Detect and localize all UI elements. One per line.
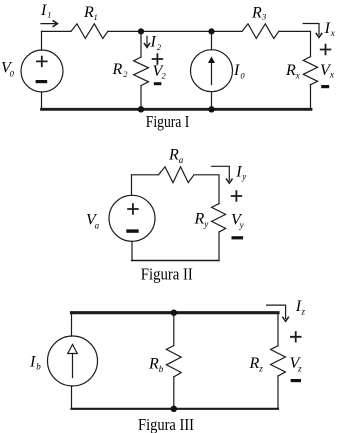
svg-text:I: I	[233, 62, 240, 79]
current I1 label and arrow	[40, 2, 58, 27]
wire left branch upper lead (Figura II)	[131, 175, 133, 196]
current Iz hook arrow and label	[267, 298, 306, 321]
resistor Ra	[159, 147, 195, 183]
node junction top of I0	[208, 28, 214, 34]
wire Rb lower lead	[173, 377, 175, 409]
resistor Rb	[148, 346, 181, 377]
wire left branch lower lead (Figura II)	[131, 241, 133, 260]
svg-text:z: z	[297, 363, 302, 373]
svg-text:x: x	[330, 28, 335, 38]
svg-text:2: 2	[157, 42, 162, 52]
wire left branch upper lead (Figura III)	[71, 313, 73, 337]
node junction top of Rb	[171, 310, 177, 316]
resistor Rz	[249, 346, 286, 376]
svg-text:I: I	[150, 34, 157, 51]
svg-text:R: R	[148, 356, 159, 373]
svg-text:3: 3	[261, 12, 266, 22]
svg-text:z: z	[258, 363, 263, 373]
svg-text:Figura II: Figura II	[141, 264, 193, 283]
wire top rail middle segment	[108, 30, 242, 32]
node junction bottom of Rb	[171, 406, 177, 412]
current Ix hook arrow and label	[303, 20, 335, 38]
polarity plus Vx minus labels	[320, 45, 334, 88]
polarity plus Vy minus labels (Figura II)	[231, 191, 244, 239]
svg-text:R: R	[168, 147, 179, 164]
voltage source Va	[86, 195, 155, 241]
svg-text:R: R	[251, 4, 262, 21]
svg-text:y: y	[239, 220, 244, 230]
bottom rail (Figura I)	[42, 108, 312, 111]
resistor R2	[112, 57, 149, 86]
svg-text:1: 1	[47, 10, 51, 20]
resistor R3	[242, 4, 279, 38]
node junction bottom of R2	[138, 106, 144, 112]
svg-text:z: z	[301, 306, 306, 316]
svg-text:Figura III: Figura III	[138, 415, 194, 433]
polarity plus Vz minus labels (Figura III)	[290, 332, 303, 382]
svg-text:I: I	[29, 353, 36, 370]
svg-text:R: R	[83, 4, 94, 21]
wire top rail right segment and corner down	[279, 31, 311, 56]
wire right branch lower lead	[310, 85, 312, 110]
voltage source V0	[1, 50, 63, 92]
node junction top of R2	[138, 28, 144, 34]
current source I0	[191, 50, 246, 92]
wire left branch lower lead (Figura III)	[71, 386, 73, 409]
svg-text:2: 2	[162, 71, 167, 81]
svg-text:R: R	[285, 62, 296, 79]
svg-text:x: x	[295, 70, 300, 80]
polarity plus V2 minus labels	[153, 54, 167, 85]
svg-text:b: b	[159, 364, 164, 374]
svg-text:y: y	[241, 172, 246, 182]
svg-text:R: R	[249, 355, 260, 372]
wire top rail left segment (Figura II)	[132, 174, 159, 176]
current Iy hook arrow and label	[212, 164, 247, 184]
resistor Rx	[285, 57, 318, 85]
bottom rail (Figura II)	[132, 260, 220, 262]
svg-text:Figura I: Figura I	[146, 112, 190, 131]
node junction bottom of I0	[208, 106, 214, 112]
svg-text:R: R	[112, 61, 123, 78]
current source Ib	[29, 336, 98, 386]
wire right branch lower lead (Figura II)	[218, 232, 220, 261]
svg-text:1: 1	[94, 12, 98, 22]
wire left branch lower lead	[41, 92, 43, 109]
wire right branch upper lead (Figura III)	[277, 313, 279, 346]
svg-text:y: y	[203, 219, 208, 229]
top rail (Figura III)	[72, 311, 279, 314]
bottom rail (Figura III)	[72, 408, 279, 410]
wire right branch lower lead (Figura III)	[277, 376, 279, 409]
wire I0 lower lead	[211, 92, 213, 110]
svg-text:I: I	[40, 2, 47, 19]
svg-text:2: 2	[123, 69, 128, 79]
svg-text:0: 0	[240, 70, 245, 80]
current I2 arrow and label	[144, 34, 162, 52]
wire I0 upper lead	[211, 31, 213, 49]
wire top rail left segment (Figura I)	[42, 30, 72, 32]
svg-text:I: I	[324, 20, 331, 37]
wire R2 upper lead	[140, 31, 142, 57]
svg-text:a: a	[179, 155, 184, 165]
svg-text:a: a	[95, 221, 100, 231]
svg-text:x: x	[329, 70, 334, 80]
resistor R1	[71, 4, 108, 39]
resistor Ry	[194, 204, 226, 232]
wire left branch upper lead	[41, 31, 43, 50]
svg-text:b: b	[36, 361, 41, 371]
wire top rail right segment and corner down (Figura II)	[194, 175, 219, 204]
svg-text:0: 0	[10, 69, 15, 79]
wire Rb upper lead	[173, 313, 175, 346]
svg-text:R: R	[194, 211, 205, 228]
wire R2 lower lead	[140, 86, 142, 110]
